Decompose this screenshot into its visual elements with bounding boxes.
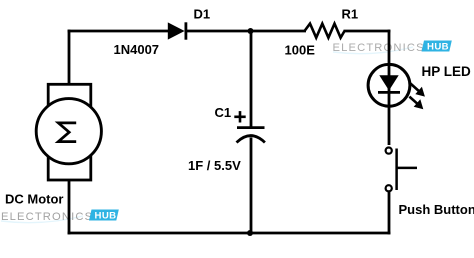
- junction node bottom: [247, 230, 253, 236]
- svg-text:1N4007: 1N4007: [114, 42, 160, 57]
- svg-text:R1: R1: [342, 7, 359, 22]
- svg-text:ELECTRONICS: ELECTRONICS: [333, 42, 425, 54]
- motor M circle: [36, 99, 101, 164]
- svg-text:ELECTRONICS: ELECTRONICS: [1, 211, 93, 223]
- watermark electronics hub top right: [333, 41, 452, 55]
- wire bottom bus: [68, 232, 391, 235]
- LED cathode bar: [378, 91, 400, 94]
- svg-text:C1: C1: [215, 105, 232, 120]
- svg-text:1F / 5.5V: 1F / 5.5V: [188, 158, 241, 173]
- wire top right segment: [344, 30, 391, 33]
- push button top contact: [386, 148, 392, 154]
- push button actuator: [397, 149, 417, 191]
- svg-text:HP LED: HP LED: [422, 64, 472, 79]
- motor letter M: [58, 123, 76, 142]
- push button bottom contact: [386, 185, 392, 191]
- svg-text:DC Motor: DC Motor: [5, 191, 64, 206]
- watermark electronics hub bottom left: [1, 210, 119, 224]
- svg-text:100E: 100E: [285, 43, 316, 58]
- diode D1: [168, 22, 186, 39]
- svg-text:HUB: HUB: [427, 42, 449, 53]
- wire right branch upper: [388, 30, 391, 145]
- wire left branch lower: [68, 179, 71, 234]
- wire left branch upper: [68, 30, 71, 85]
- junction node top: [248, 28, 254, 34]
- resistor R1: [305, 24, 345, 38]
- LED triangle: [379, 75, 398, 90]
- svg-text:HUB: HUB: [95, 211, 117, 222]
- motor M body rectangle: [48, 84, 91, 180]
- LED circle: [368, 64, 410, 106]
- LED arrow 1: [410, 83, 425, 96]
- wire capacitor branch lower: [250, 138, 253, 234]
- wire capacitor branch upper: [250, 31, 253, 127]
- wire right branch lower: [388, 192, 391, 235]
- wire top left segment: [68, 30, 170, 33]
- LED arrow 2: [409, 97, 423, 110]
- wire top middle segment: [185, 30, 306, 33]
- svg-text:Push Button: Push Button: [399, 202, 474, 217]
- capacitor plus sign: [234, 111, 245, 122]
- svg-text:D1: D1: [194, 7, 211, 22]
- capacitor C1: [237, 128, 265, 143]
